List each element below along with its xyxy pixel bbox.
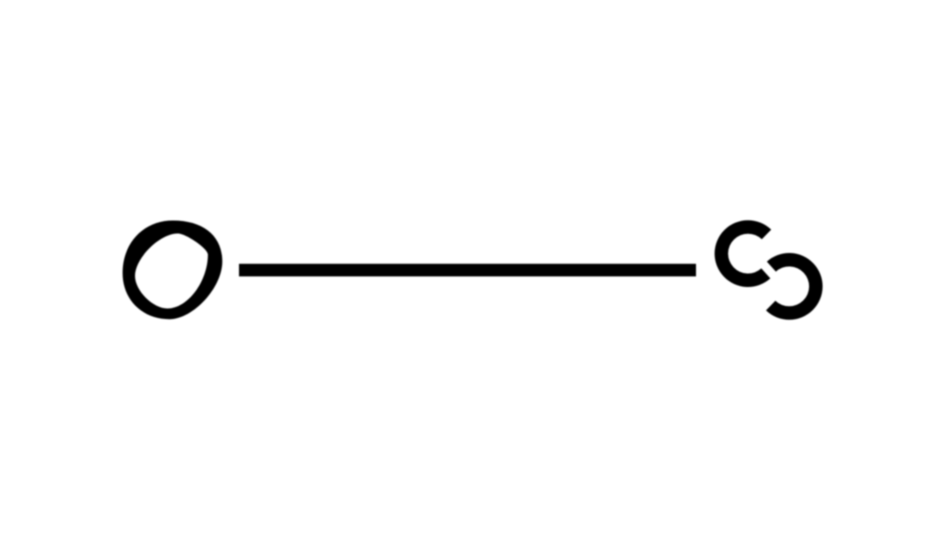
arc C1 (upper-left C)	[715, 220, 772, 287]
arc C2 (lower-right C, 180deg rotation of C1)	[766, 253, 823, 320]
wire (horizontal connector bar)	[239, 264, 696, 277]
node O (italic ring terminal)	[123, 221, 223, 320]
